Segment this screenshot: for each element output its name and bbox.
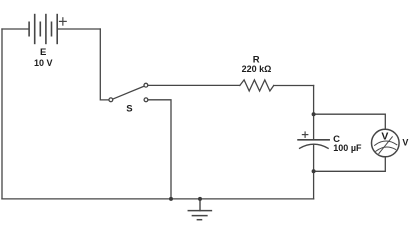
junction dot ground <box>198 197 202 201</box>
svg-text:E: E <box>40 47 46 58</box>
capacitor C curved plate <box>300 144 329 148</box>
ground bar 1 <box>188 210 211 212</box>
junction dot bottom right <box>312 169 316 173</box>
resistor R zigzag <box>240 80 274 91</box>
svg-text:V: V <box>381 131 388 143</box>
battery E plates <box>29 15 57 44</box>
voltmeter circle <box>372 129 400 157</box>
ground stub <box>199 199 201 211</box>
battery plus sign <box>60 18 67 25</box>
wire below capacitor <box>313 145 315 199</box>
wire right vertical to capacitor <box>313 86 315 140</box>
svg-text:220 kΩ: 220 kΩ <box>242 64 272 74</box>
svg-text:10 V: 10 V <box>34 58 53 68</box>
wire switch lower branch <box>148 100 171 199</box>
voltmeter needle <box>379 137 392 154</box>
svg-text:S: S <box>126 104 132 115</box>
junction dot bottom left <box>169 197 173 201</box>
wire voltmeter bottom return <box>314 157 386 171</box>
wire branch to voltmeter top <box>314 114 386 129</box>
switch S arm <box>113 86 145 99</box>
wire switch upper to resistor <box>148 84 240 86</box>
capacitor plus sign <box>302 132 307 137</box>
voltmeter scale arc lower <box>376 147 396 151</box>
switch common terminal circle <box>109 98 113 102</box>
voltmeter scale arc upper <box>375 141 397 145</box>
wire battery right lead <box>57 28 100 30</box>
switch upper terminal circle <box>144 83 148 87</box>
ground bar 2 <box>192 215 207 217</box>
capacitor C top plate <box>298 139 329 141</box>
svg-text:V: V <box>402 138 408 148</box>
junction dot top right <box>312 112 316 116</box>
wire resistor to right corner <box>274 85 314 87</box>
wire bottom horizontal <box>2 198 314 200</box>
ground bar 3 <box>197 219 201 221</box>
wire battery left lead <box>2 28 29 30</box>
svg-text:100 µF: 100 µF <box>333 143 362 153</box>
wire left side vertical <box>1 29 3 199</box>
wire down to switch common <box>100 29 109 100</box>
switch lower terminal circle <box>144 98 148 102</box>
